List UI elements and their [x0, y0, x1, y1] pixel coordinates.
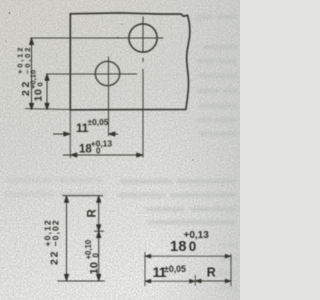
chain figure B: right extension tick [230, 254, 232, 286]
svg-text:+0,13: +0,13 [91, 139, 113, 149]
dimension line 11 horizontal (arrows outside, pointing inward) [53, 133, 118, 135]
scan grain [0, 0, 240, 300]
chain A dimension line 10 [98, 232, 100, 281]
svg-text:±0,05: ±0,05 [164, 264, 186, 274]
hole circle small [95, 61, 119, 85]
chain A dimension line 22 [66, 196, 68, 280]
paper background [0, 0, 240, 300]
svg-text:R: R [86, 209, 98, 218]
extension line below left plate edge [69, 110, 71, 158]
chain A dimension line R [98, 196, 100, 230]
svg-text:10: 10 [33, 89, 45, 102]
svg-text:18: 18 [170, 239, 187, 255]
centerline vertical of large hole [142, 17, 144, 53]
chain figure A: bottom boundary line [58, 280, 106, 282]
chain figure B: left extension tick [144, 252, 146, 286]
plate outline (part view with broken right edge) [70, 13, 190, 110]
svg-text:10: 10 [89, 262, 101, 275]
svg-text:0: 0 [91, 253, 100, 258]
dimension line 18 horizontal [63, 154, 143, 156]
chain figure A: middle boundary tick [94, 230, 104, 232]
chain A label 22 +0,12 -0,02 (rotated) [43, 219, 61, 265]
svg-text:0: 0 [96, 147, 101, 156]
chain figure B: middle extension tick [194, 275, 196, 286]
chain B dimension line R [196, 280, 231, 282]
dimension line 10 vertical [46, 75, 48, 109]
extension of plate bottom edge to the left [25, 109, 70, 110]
svg-text:R: R [207, 266, 216, 280]
centerline vertical of small hole [108, 57, 110, 137]
hole circle large [129, 24, 157, 52]
chain B dimension line 18 [145, 255, 230, 257]
dimension label 10 +0,10 0 (rotated) [28, 70, 44, 102]
svg-text:−0,02: −0,02 [50, 219, 60, 246]
svg-text:22: 22 [49, 250, 61, 265]
chain A label R (rotated) [86, 209, 98, 218]
centerline horizontal of large hole [30, 37, 164, 39]
svg-text:0: 0 [189, 239, 197, 254]
scan specks [5, 12, 194, 161]
bleed-through text rows (illegible back-page print) [4, 15, 238, 290]
chain figure A: top boundary line [63, 195, 104, 197]
svg-text:0: 0 [36, 82, 45, 86]
svg-text:±0,05: ±0,05 [88, 117, 109, 127]
centerline horizontal of small hole [46, 73, 137, 75]
chain A label 10 +0,10 0 (rotated) [84, 239, 100, 274]
chain B dimension line 11 [145, 280, 195, 282]
dimension label 22 +0,12 -0,02 (rotated) [16, 46, 32, 96]
svg-text:+0,13: +0,13 [184, 230, 210, 241]
dimension line 22 vertical [31, 39, 33, 109]
svg-text:−0,02: −0,02 [23, 46, 32, 74]
